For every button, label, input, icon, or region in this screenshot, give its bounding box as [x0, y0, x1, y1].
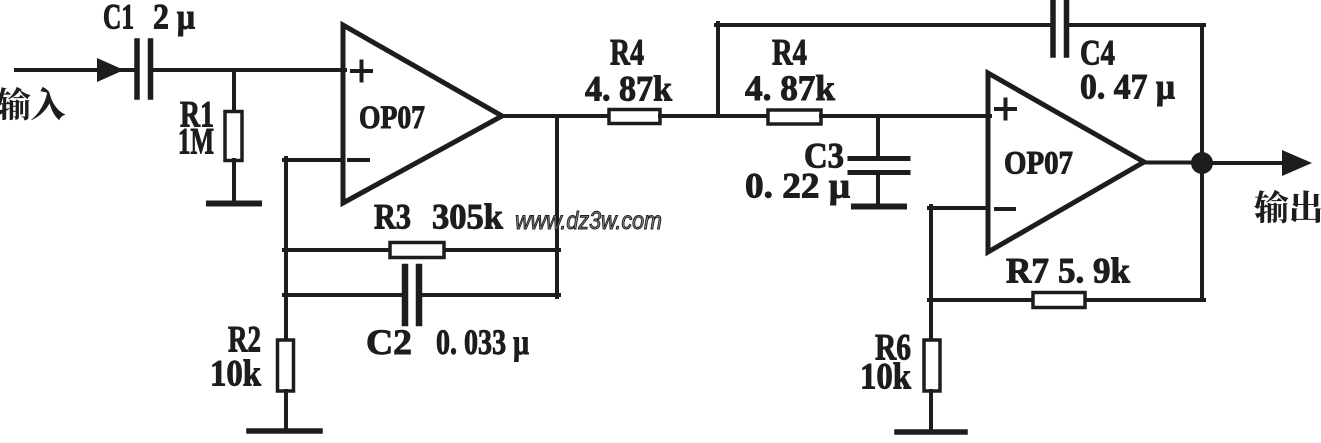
- wire: R4 to R4: [660, 114, 770, 118]
- wire: U2 output to node: [1142, 161, 1202, 165]
- wire: C3 to ground: [876, 173, 880, 205]
- svg-text:5. 9k: 5. 9k: [1058, 251, 1130, 291]
- capacitor C2: [402, 267, 409, 323]
- svg-text:305k: 305k: [432, 197, 503, 237]
- node: input label 输入: [0, 87, 65, 120]
- node: output junction dot: [1191, 152, 1213, 174]
- wire: feedback left vertical: [284, 158, 288, 297]
- svg-text:1M: 1M: [178, 122, 214, 163]
- wire: junction vertical to top line: [716, 23, 720, 116]
- svg-text:0. 47 μ: 0. 47 μ: [1080, 67, 1175, 107]
- wire: feedback right vertical: [555, 116, 559, 297]
- resistor R3: [390, 243, 444, 258]
- svg-text:0. 033 μ: 0. 033 μ: [436, 322, 529, 362]
- wire: U2 feedback vertical: [929, 206, 933, 302]
- wire: C4 to right vertical: [1067, 23, 1205, 27]
- ground (R2): [249, 428, 320, 434]
- svg-text:OP07: OP07: [359, 100, 425, 136]
- U2 + input symbol: [996, 107, 1015, 111]
- ground (R1): [209, 201, 259, 207]
- capacitor C3: [850, 156, 908, 161]
- wire: U1 inverting input: [284, 158, 343, 162]
- svg-text:R7: R7: [1006, 251, 1049, 291]
- svg-text:0. 22 μ: 0. 22 μ: [745, 166, 850, 206]
- wire: R3 feedback line: [284, 248, 559, 252]
- wire: C2 feedback line right: [419, 293, 559, 297]
- resistor R6: [924, 340, 940, 391]
- wire: R6 stem: [929, 300, 933, 342]
- svg-text:10k: 10k: [860, 357, 911, 398]
- wire: right vertical (C4/output): [1200, 25, 1204, 163]
- resistor R4 (second): [768, 110, 821, 124]
- U2 - input symbol: [996, 207, 1014, 211]
- op-amp U2 (OP07): [988, 73, 1144, 252]
- resistor R7: [1033, 293, 1085, 308]
- ground (R6): [897, 429, 965, 435]
- wire: C2 feedback line left: [284, 293, 405, 297]
- resistor R2: [278, 340, 294, 391]
- svg-text:C1: C1: [103, 0, 134, 37]
- wire: R2 stem: [284, 295, 288, 342]
- wire: R1 stem from input line: [232, 70, 236, 113]
- watermark www.dz3w.com: [515, 206, 662, 234]
- svg-text:4. 87k: 4. 87k: [745, 68, 835, 108]
- op-amp U1 (OP07): [343, 25, 502, 203]
- U1 + input symbol: [352, 69, 371, 73]
- wire: C1 to op-amp U1 + input: [151, 68, 346, 72]
- node: output label 输出: [1254, 190, 1321, 223]
- U1 - input symbol: [349, 158, 368, 162]
- svg-text:10k: 10k: [210, 354, 261, 395]
- svg-text:OP07: OP07: [1004, 146, 1073, 182]
- wire: input line: [16, 68, 137, 72]
- svg-text:R3: R3: [374, 197, 411, 237]
- wire: C3 stem: [876, 116, 880, 159]
- ground (C3): [854, 204, 904, 210]
- svg-text:4. 87k: 4. 87k: [585, 69, 672, 109]
- input signal arrowhead: [97, 58, 124, 82]
- resistor R1: [225, 112, 242, 161]
- wire: U1 output: [500, 114, 611, 118]
- capacitor C4: [1050, 2, 1056, 55]
- svg-text:2 μ: 2 μ: [153, 0, 195, 37]
- svg-text:C2: C2: [366, 322, 412, 362]
- svg-text:www.dz3w.com: www.dz3w.com: [515, 206, 662, 234]
- resistor R4 (first): [609, 110, 660, 124]
- output arrowhead: [1282, 150, 1312, 176]
- wire: R2 to ground: [284, 391, 288, 429]
- wire: R4 to U2 + input: [821, 114, 990, 118]
- wire: R7 feedback line: [929, 298, 1204, 302]
- wire: right vertical node to R7: [1200, 163, 1204, 300]
- wire: R6 to ground: [929, 391, 933, 430]
- capacitor C1: [134, 41, 140, 97]
- wire: top line to C4: [716, 23, 1053, 27]
- svg-text:R4: R4: [610, 33, 644, 74]
- wire: R1 to ground: [232, 160, 236, 201]
- wire: U2 inverting input: [929, 206, 988, 210]
- wire: output arrow: [1202, 161, 1285, 165]
